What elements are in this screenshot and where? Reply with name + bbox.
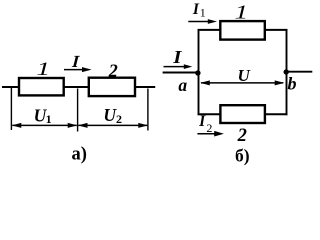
current arrow I (input) — [164, 64, 193, 69]
resistor 2 (box) — [89, 78, 135, 96]
svg-text:2: 2 — [206, 121, 212, 135]
resistor 1 (box) — [19, 78, 64, 95]
voltage span arrow U (a to b) — [200, 80, 284, 85]
svg-text:I: I — [172, 48, 183, 67]
svg-text:a): a) — [71, 144, 86, 164]
resistor 1 value label "1" — [36, 59, 50, 80]
svg-text:U: U — [237, 66, 250, 85]
loop top wire — [198, 29, 288, 31]
loop right vertical wire — [286, 29, 288, 115]
svg-text:1: 1 — [234, 2, 248, 23]
node b (junction dot) — [284, 69, 289, 74]
svg-text:2: 2 — [116, 112, 122, 126]
input wire (left feed) — [163, 72, 199, 74]
resistor 1 top branch (box) — [220, 21, 264, 39]
node a (junction dot) — [195, 70, 200, 75]
loop bottom wire — [198, 113, 288, 115]
output wire (right) — [287, 71, 313, 73]
resistor 2 bottom branch (box) — [220, 105, 265, 123]
current label I (input) — [172, 48, 183, 67]
svg-text:1: 1 — [36, 59, 50, 80]
svg-text:2: 2 — [237, 126, 247, 146]
tick line middle — [77, 89, 79, 132]
tick line left — [10, 88, 12, 130]
svg-text:1: 1 — [46, 112, 52, 126]
voltage span arrow U1 — [12, 123, 78, 128]
svg-text:I: I — [192, 1, 200, 18]
svg-text:б): б) — [235, 145, 250, 165]
top resistor value label "1" — [234, 2, 248, 23]
loop left vertical wire — [198, 29, 200, 115]
voltage span arrow U2 — [78, 123, 148, 128]
current arrow I2 — [197, 131, 224, 137]
svg-text:a: a — [178, 75, 187, 95]
current arrow I1 — [188, 19, 217, 24]
tick line right — [147, 89, 149, 131]
wire: main horizontal of circuit a — [2, 86, 155, 88]
svg-text:2: 2 — [108, 60, 118, 80]
svg-text:1: 1 — [200, 6, 206, 20]
current arrow (circuit a) — [64, 67, 92, 72]
svg-text:b: b — [288, 73, 297, 93]
svg-text:I: I — [198, 113, 206, 130]
